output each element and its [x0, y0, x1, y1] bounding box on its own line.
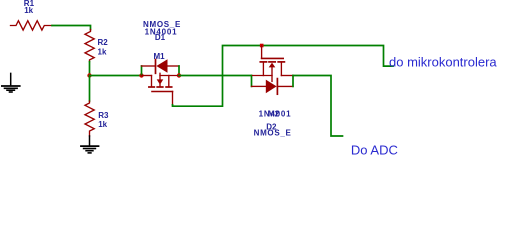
wire M2 right to Do ADC: [293, 76, 343, 137]
node M2 gate (square junction): [260, 44, 264, 48]
resistor R2: [85, 30, 94, 62]
transistor M2 (NMOS_E): [253, 46, 294, 82]
svg-text:NMOS_E: NMOS_E: [254, 129, 292, 138]
resistor R1: [11, 21, 53, 30]
transistor M1 (NMOS_E): [142, 73, 180, 105]
ground (under R3): [81, 136, 99, 153]
svg-text:1k: 1k: [98, 48, 107, 57]
svg-text:NMOS_E: NMOS_E: [143, 20, 181, 29]
ground (left, floating): [2, 73, 20, 92]
svg-text:1k: 1k: [24, 6, 33, 15]
wire junction to R3: [89, 76, 91, 102]
diode D1 (1N4001): [142, 59, 180, 73]
svg-text:Do ADC: Do ADC: [351, 143, 398, 158]
wire R2 bottom to junction: [89, 62, 91, 76]
svg-text:M1: M1: [153, 52, 165, 61]
diode D2 (1N4001): [252, 79, 294, 95]
wire M1 right to M2 left: [179, 75, 252, 77]
node M1 right: [177, 73, 181, 77]
wire riser to D1 anode side (left): [141, 66, 143, 76]
node junction R2/R3/M1: [87, 73, 91, 77]
wire riser to D2 anode (left): [251, 76, 253, 87]
wire riser D2 cathode to M2 right: [292, 76, 294, 87]
wire R1 to R2 top: [52, 26, 91, 30]
svg-text:1k: 1k: [98, 120, 107, 129]
wire M1 gate to top net: [173, 46, 394, 107]
svg-text:do mikrokontrolera: do mikrokontrolera: [389, 54, 497, 69]
node M1 left: [139, 73, 143, 77]
svg-text:M2: M2: [268, 109, 280, 118]
svg-text:R2: R2: [98, 38, 109, 47]
wire riser from D1 to M1 right node: [178, 66, 180, 76]
resistor R3: [85, 101, 94, 136]
wire junction to M1: [90, 75, 142, 77]
svg-text:R3: R3: [98, 111, 109, 120]
